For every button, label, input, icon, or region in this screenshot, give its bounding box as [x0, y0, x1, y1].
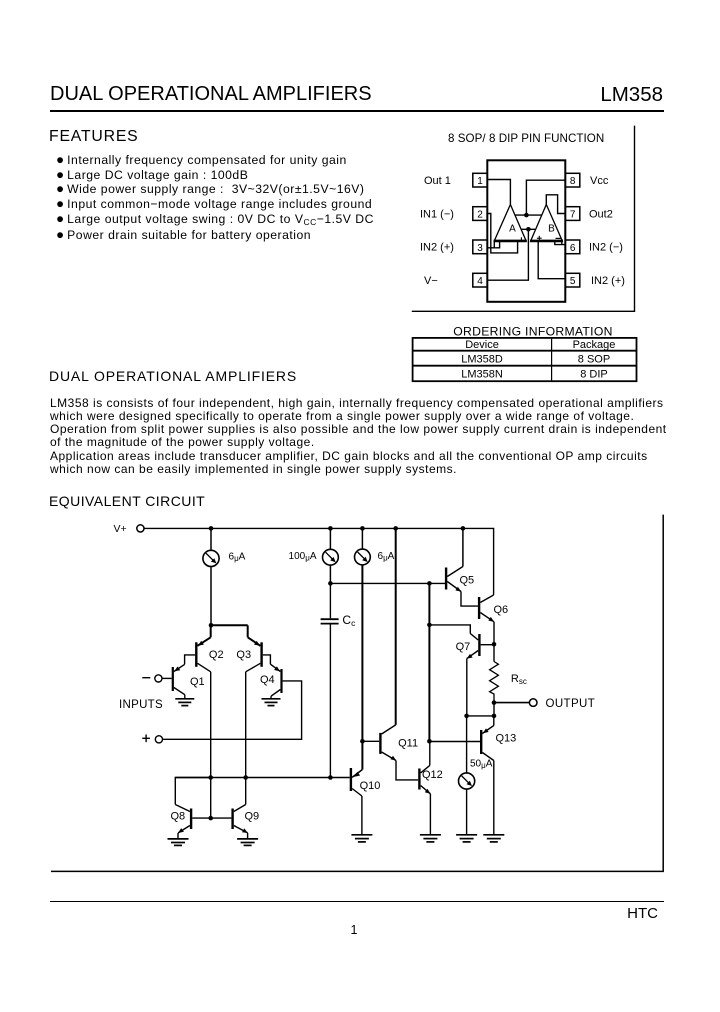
label Q12: [422, 769, 443, 781]
svg-text:ORDERING INFORMATION: ORDERING INFORMATION: [453, 324, 612, 338]
pin label Out 1: [424, 175, 451, 187]
op-amp B plus mark: [537, 236, 542, 241]
node dot rail Cc: [328, 775, 333, 780]
ground Q10: [351, 835, 372, 842]
svg-text:7: 7: [570, 210, 576, 221]
transistor Q6: [478, 595, 494, 644]
wire pin3 notch to A non-inverting input: [487, 242, 499, 248]
page number: [342, 923, 366, 937]
svg-text:3: 3: [477, 243, 483, 254]
features bullet list: [56, 153, 374, 242]
svg-text:Q9: Q9: [245, 810, 260, 822]
junction dot V- rail: [526, 227, 531, 232]
wire I1 to diff pair tail: [210, 567, 212, 626]
svg-text:Q10: Q10: [360, 780, 381, 792]
svg-text:50μA: 50μA: [470, 758, 493, 770]
label Cc: [342, 613, 356, 628]
svg-text:Q4: Q4: [260, 674, 275, 686]
label Q3: [236, 649, 251, 661]
wire Q3 base to Q4 emitter: [263, 655, 271, 664]
svg-text:IN1 (−): IN1 (−): [420, 208, 454, 220]
ordering table: [413, 338, 637, 381]
wire Q5 base line: [330, 582, 445, 584]
svg-text:Q12: Q12: [422, 769, 443, 781]
wire I2 to node: [329, 565, 331, 583]
node dot rail x463: [461, 526, 466, 531]
ground Q13: [483, 835, 504, 842]
wire I3 down to Q10 emitter: [361, 565, 363, 770]
svg-text:Q8: Q8: [171, 810, 186, 822]
pin 2 box: [473, 207, 488, 221]
svg-text:V+: V+: [114, 523, 127, 535]
label Q9: [245, 810, 260, 822]
header title: [50, 83, 372, 106]
op-amp B triangle: [530, 205, 563, 241]
svg-text:Q11: Q11: [398, 737, 418, 749]
svg-text:Out2: Out2: [589, 208, 613, 220]
svg-text:Q3: Q3: [236, 649, 251, 661]
wire Q8 Q9 base rail: [192, 778, 231, 819]
label Q11: [398, 737, 418, 749]
svg-text:5: 5: [570, 276, 576, 287]
transistor Q13: [429, 716, 493, 835]
svg-text:Rsc: Rsc: [511, 673, 527, 686]
8 SOP / 8 DIP PIN FUNCTION diagram: [400, 118, 670, 393]
svg-text:Q13: Q13: [496, 733, 517, 745]
ground Q12: [420, 835, 441, 842]
svg-text:Q7: Q7: [456, 641, 471, 653]
wire rail to current source I1: [210, 528, 212, 550]
transistor Q3: [211, 625, 263, 777]
plus input terminal: [155, 736, 162, 743]
node dot rail Q2 collector: [208, 775, 213, 780]
EQUIVALENT CIRCUIT heading: [49, 493, 205, 509]
wire top supply rail: [144, 528, 494, 595]
op-amp A triangle: [494, 205, 527, 241]
label Q1: [190, 676, 205, 688]
pin function border (right + bottom): [412, 126, 635, 312]
svg-text:B: B: [548, 224, 555, 235]
label Q8: [171, 810, 186, 822]
node dot rail x330: [328, 526, 333, 531]
footer rule: [50, 901, 664, 902]
ordering information title: [453, 324, 612, 338]
wire pin5 to B non-inverting input: [538, 242, 565, 279]
wire first stage collector rail: [175, 777, 349, 779]
V+ label: [114, 523, 127, 535]
pin 8 box: [565, 173, 580, 187]
svg-text:8 SOP: 8 SOP: [578, 353, 610, 365]
pin label IN2 (+) left: [420, 242, 454, 254]
ground Q1: [175, 699, 194, 706]
label Q6: [494, 604, 509, 616]
svg-text:OUTPUT: OUTPUT: [546, 698, 596, 710]
current source I4 50uA: [459, 773, 475, 789]
svg-text:Cc: Cc: [342, 613, 356, 628]
ground Q4: [262, 699, 281, 706]
footer HTC: [598, 905, 658, 922]
svg-text:8: 8: [570, 176, 576, 187]
label Q2: [209, 649, 224, 661]
label 6uA I3: [378, 551, 395, 563]
wire pin6 notch to B inverting input: [555, 242, 566, 245]
wire output lower link: [467, 715, 494, 717]
svg-text:6μA: 6μA: [378, 551, 395, 563]
svg-text:4: 4: [477, 276, 483, 287]
pin label IN2 (-): [589, 242, 623, 254]
wire Q1 emitter to Q2 base: [185, 655, 196, 665]
pin 1 box: [473, 173, 488, 187]
header rule: [50, 110, 664, 112]
label Q5: [460, 574, 475, 586]
svg-text:1: 1: [477, 176, 483, 187]
node dot output upper: [492, 700, 497, 705]
svg-text:2: 2: [477, 210, 483, 221]
svg-text:A: A: [509, 224, 516, 235]
wire capacitor to Q10 base rail: [329, 625, 331, 778]
svg-text:Q1: Q1: [190, 676, 205, 688]
svg-text:LM358N: LM358N: [461, 368, 503, 380]
svg-text:Q5: Q5: [460, 574, 475, 586]
transistor Q10: [350, 768, 363, 835]
wire pin2 to A inverting input: [487, 214, 517, 253]
current source I3 6uA: [355, 549, 371, 565]
pin 7 box: [565, 207, 580, 221]
section heading: [49, 368, 297, 384]
svg-text:Out 1: Out 1: [424, 175, 451, 187]
ordering information: [400, 320, 650, 390]
svg-text:Device: Device: [465, 339, 499, 351]
ground I4: [456, 835, 477, 842]
label Q10: [360, 780, 381, 792]
wire minus input to Q1 base: [162, 677, 172, 679]
label 50uA: [470, 758, 493, 770]
node dot bias top: [427, 581, 432, 586]
transistor Q11: [362, 725, 418, 780]
V+ terminal: [137, 525, 144, 532]
equivalent circuit schematic: [40, 505, 680, 885]
svg-text:V−: V−: [424, 275, 438, 287]
current source I1 6uA: [203, 550, 219, 566]
label Q13: [496, 733, 517, 745]
description paragraphs: [50, 397, 695, 477]
node dot diff pair tail: [209, 623, 214, 628]
node dot output lower left: [464, 714, 469, 719]
transistor Q4: [270, 664, 282, 699]
label OUTPUT: [546, 698, 596, 710]
junction dot Vcc rail: [524, 213, 529, 218]
ground Q8: [168, 839, 189, 846]
label Q7: [456, 641, 471, 653]
svg-text:IN2 (+): IN2 (+): [420, 242, 454, 254]
label 100uA: [289, 551, 317, 563]
pin label Vcc: [590, 175, 609, 187]
transistor Q7: [429, 625, 494, 716]
capacitor Cc: [321, 619, 339, 623]
ground Q9: [237, 839, 258, 846]
wire plus input to Q4 base: [163, 681, 302, 739]
resistor Rsc: [490, 644, 499, 702]
wire to output terminal: [494, 702, 529, 704]
FEATURES heading: [49, 128, 139, 146]
svg-text:Vcc: Vcc: [590, 175, 609, 187]
node dot Q6 emitter Q7 base: [492, 642, 497, 647]
pin label Out2: [589, 208, 613, 220]
transistor Q2: [195, 625, 211, 777]
wire to current source I4: [466, 716, 468, 773]
pin 6 box: [565, 240, 580, 254]
svg-text:IN2 (−): IN2 (−): [589, 242, 623, 254]
svg-text:IN2 (+): IN2 (+): [591, 275, 625, 287]
wire I2 node to capacitor: [329, 583, 331, 618]
svg-text:LM358D: LM358D: [461, 353, 503, 365]
wire second stage bias vertical: [428, 583, 430, 741]
label Q4: [260, 674, 275, 686]
svg-text:6: 6: [570, 243, 576, 254]
IC body U1: [487, 160, 565, 301]
node dot output lower right: [492, 714, 497, 719]
pin function title: [448, 132, 604, 145]
label Rsc: [511, 673, 527, 686]
svg-text:Q6: Q6: [494, 604, 509, 616]
header part number LM358: [598, 83, 663, 107]
transistor Q8: [175, 778, 210, 839]
minus input sign: [142, 677, 150, 679]
wire rail to current source I2: [329, 528, 331, 549]
svg-text:8 DIP: 8 DIP: [580, 368, 608, 380]
svg-text:Package: Package: [573, 339, 616, 351]
svg-text:8 SOP/ 8 DIP PIN FUNCTION: 8 SOP/ 8 DIP PIN FUNCTION: [448, 132, 604, 145]
pin 3 box: [473, 240, 488, 254]
wire output node down: [493, 703, 495, 716]
circuit border (right + bottom): [51, 515, 663, 872]
node dot rail Q3 collector: [243, 775, 248, 780]
svg-text:Q2: Q2: [209, 649, 224, 661]
pin label IN1 (-): [420, 208, 454, 220]
transistor Q12: [418, 741, 430, 835]
minus input terminal: [155, 675, 162, 682]
wire pin1 to op-amp A output: [487, 180, 510, 205]
transistor Q9: [231, 778, 247, 839]
V- rail between amps: [521, 228, 535, 230]
Vcc rail between amps: [515, 214, 541, 216]
label 6uA I1: [229, 552, 246, 564]
wire Q11 collector vertical: [395, 528, 397, 725]
node dot rail x211: [209, 526, 214, 531]
svg-text:INPUTS: INPUTS: [119, 699, 163, 711]
wire pin8 Vcc: [526, 180, 565, 215]
node dot Q7 collector: [427, 623, 432, 628]
label INPUTS: [119, 699, 163, 711]
node dot rail x396: [393, 526, 398, 531]
current source I2 100uA: [323, 549, 339, 565]
op-amp A minus mark: [520, 237, 522, 241]
node dot I2 out: [328, 581, 333, 586]
node dot Q11 base: [360, 739, 365, 744]
wire I4 to ground: [466, 789, 468, 835]
svg-text:6μA: 6μA: [229, 552, 246, 564]
transistor Q1: [172, 664, 185, 698]
op-amp B minus mark: [556, 237, 561, 239]
wire rail to current source I3: [361, 528, 363, 549]
node dot Q12 collector Q13 base: [427, 739, 432, 744]
node dot rail x362: [360, 526, 365, 531]
wire pin7 to op-amp B output: [546, 195, 565, 214]
pin label IN2 (+) right: [591, 275, 625, 287]
pin 5 box: [565, 273, 580, 287]
node dot base rail: [208, 816, 213, 821]
svg-text:100μA: 100μA: [289, 551, 317, 563]
pin label V-: [424, 275, 438, 287]
OUTPUT terminal: [529, 699, 537, 707]
transistor Q5: [445, 528, 478, 606]
plus input sign: [142, 735, 150, 743]
pin 4 box: [473, 273, 488, 287]
wire V- rail to pin4: [487, 229, 528, 280]
